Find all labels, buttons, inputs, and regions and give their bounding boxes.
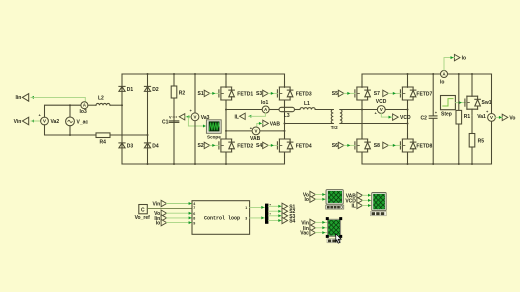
svg-text:9: 9 [193,221,195,225]
svg-text:C: C [141,207,145,213]
demux bar [265,204,271,224]
wire bridge1 right leg [284,74,286,164]
port S4 out [282,217,296,224]
port Vin scope2 [301,219,315,226]
resistor R2 [171,86,185,98]
wire Iin signal [31,97,85,101]
gate S3 [256,90,277,97]
wire bridge A output [226,109,262,111]
svg-text:IL: IL [351,204,355,210]
ammeter Io3 [80,102,88,115]
svg-text:S4: S4 [256,143,262,149]
voltmeter Va3 [190,74,210,164]
node VAB right [284,130,286,132]
node leg2R top [407,73,409,75]
svg-text:7: 7 [193,206,195,210]
svg-text:Vin: Vin [14,119,22,125]
transistor FETD7 [400,81,432,105]
svg-text:S8: S8 [374,143,380,149]
wire Vo to box [167,212,193,214]
transistor Sw1 [465,74,492,134]
probe Vin [14,117,34,125]
wire VAB signal [257,123,263,127]
port Vac scope2 [300,229,315,236]
wire Vin signal [31,120,41,122]
resistor R4 [96,133,148,146]
wire bridge left leg [121,74,123,164]
port Vin in [152,200,166,207]
node secondary bottom right [407,123,409,125]
wire bridge2 right leg [407,74,409,164]
svg-text:Iin: Iin [15,95,21,101]
svg-text:FETD8: FETD8 [416,143,432,149]
node R1 bottom [458,163,460,165]
scope output-side [326,190,344,210]
svg-text:D3: D3 [127,143,134,149]
svg-text:Tr2: Tr2 [331,125,338,130]
svg-text:FETD1: FETD1 [237,91,253,97]
svg-text:Va1: Va1 [477,114,486,120]
inductor L1 [295,101,334,110]
svg-text:R4: R4 [100,140,107,146]
svg-text:R5: R5 [478,139,485,145]
voltmeter VAB [226,125,285,142]
port VAB scope3 [346,192,363,199]
svg-text:VAB: VAB [250,136,261,142]
gate S7 [374,90,401,97]
svg-text:D2: D2 [152,87,159,93]
wire C to pin7 [147,207,192,209]
svg-text:S4: S4 [289,219,295,225]
port S3 out [282,213,296,220]
diode D1 [119,86,134,92]
wire scope branch [188,117,204,126]
node AC right [147,134,149,136]
node source bottom [69,134,71,136]
transistor FETD3 [277,81,311,105]
svg-text:C2: C2 [421,115,428,121]
svg-text:FETD7: FETD7 [416,91,432,97]
node R2 rail top [173,73,175,75]
svg-text:Step: Step [441,111,452,117]
wire Step signal [455,102,465,104]
svg-text:L2: L2 [98,96,104,102]
port Vo scope1 [303,191,316,198]
svg-text:IL: IL [235,114,239,120]
svg-text:Io: Io [462,56,466,62]
node C2 top [432,73,434,75]
svg-text:S2: S2 [198,143,204,149]
wire Vo scope1 [315,194,326,196]
step source Step [441,96,456,118]
diode D2 [144,86,159,92]
wire bottom rail 1 [122,163,285,165]
scope transformer-side [371,193,387,216]
port S1 out [282,203,296,210]
svg-text:8: 8 [193,217,195,221]
wire Vin scope2 [315,221,327,223]
wire demux out 4 [268,220,282,222]
node secondary top left [361,109,363,111]
svg-text:FETD2: FETD2 [237,143,253,149]
svg-text:Io: Io [304,197,308,203]
svg-text:6: 6 [193,212,195,216]
svg-text:VAB: VAB [270,121,281,127]
node A [225,109,227,111]
probe VCD [393,114,411,121]
capacitor C2 [421,74,438,164]
node bottom rail D4 [147,163,149,165]
svg-text:Vin: Vin [152,201,160,207]
resistor R1 [456,74,470,164]
gate S1 [198,90,219,97]
wire secondary top [340,109,408,111]
probe VAB [263,120,281,127]
svg-text:FETD3: FETD3 [296,91,312,97]
svg-text:S3: S3 [256,91,262,97]
inductor L2 [88,96,122,106]
gate S4 [256,142,277,149]
svg-text:Io1: Io1 [261,100,268,106]
transistor FETD1 [219,81,253,105]
voltmeter Va2 [39,113,60,126]
node R1 top [458,73,460,75]
scope input-side selected [326,217,342,243]
source V_ac [66,105,89,135]
gate S6 [332,142,355,149]
wire demux out 3 [268,215,282,217]
probe Io [454,54,466,61]
probe Vo [502,114,515,121]
port Vo in [154,210,167,217]
svg-text:1: 1 [245,206,247,210]
transistor FETD2 [219,133,253,157]
wire Vin to box [167,203,193,205]
svg-text:Vo: Vo [509,115,515,121]
svg-text:VCD: VCD [400,115,411,121]
svg-text:S6: S6 [332,143,338,149]
wire demux out 2 [268,210,282,212]
scope Scope [206,120,221,140]
voltmeter VCD [375,99,387,116]
svg-text:Control loop: Control loop [204,216,240,222]
svg-text:Scope: Scope [207,135,221,140]
wire IL scope3 [362,205,371,207]
node R2 rail bottom [173,163,175,165]
transistor FETD6 [355,133,371,157]
wire Vo signal [495,116,502,118]
gate S2 [198,142,219,149]
node source top [69,104,71,106]
svg-text:L1: L1 [304,101,310,107]
wire Io signal [444,58,454,71]
svg-text:S1: S1 [198,91,204,97]
svg-text:Va2: Va2 [51,119,60,125]
port Iin in [154,215,166,222]
wire VAB scope3 [362,194,371,196]
svg-text:L3: L3 [284,113,290,119]
svg-text:D4: D4 [152,143,159,149]
diode D3 [119,143,134,149]
wire ctrl out 1 [250,206,265,208]
wire demux out 1 [268,205,282,207]
svg-text:D1: D1 [127,87,134,93]
wire Io to box [167,222,193,224]
node secondary top right [407,109,409,111]
subcircuit Control loop [192,201,250,235]
probe IL [235,113,252,120]
diode D4 [144,143,159,149]
capacitor C1 [162,116,179,126]
wire bridge right leg [147,74,149,164]
wire VCD scope3 [362,199,371,201]
wire secondary bottom [340,123,408,125]
wire bottom rail 2 [362,163,492,165]
node B [284,123,286,125]
wire Vac scope2 [315,232,327,234]
wire IL signal [248,113,265,116]
port VCD scope3 [345,197,362,204]
node leg1 top [225,73,227,75]
node top rail D2 [147,73,149,75]
transistor FETD5 [355,81,371,105]
voltmeter Va1 [477,74,495,164]
wire bridge2 left leg [361,74,363,164]
node R5 bottom [471,163,473,165]
wire top rail 1 [122,73,285,75]
node Va3 rail top [194,73,196,75]
transistor FETD4 [277,133,311,157]
wire R2/C1 rail [173,74,175,164]
svg-text:C1: C1 [162,120,169,126]
wire Iin scope2 [315,227,327,229]
wire Vdc signal [185,116,191,118]
gate S5 [332,90,355,97]
svg-text:Io3: Io3 [80,109,87,115]
wire input bottom [45,125,97,135]
svg-text:Io: Io [440,79,444,85]
node leg1 bottom [225,163,227,165]
inductor L3 [269,107,294,119]
svg-text:S5: S5 [332,91,338,97]
constant C (Vo_ref) [135,205,151,221]
node leg2R bottom [407,163,409,165]
wire bridge1 left leg [225,74,227,164]
gate S8 [374,142,401,149]
probe Iin [15,94,34,102]
svg-text:VCD: VCD [376,99,387,105]
wire bridge B output [285,123,334,125]
node Sw1 top [471,73,473,75]
resistor R5 [469,134,484,165]
svg-text:Io: Io [156,221,160,227]
node VAB left [225,130,227,132]
svg-text:Sw1: Sw1 [482,100,492,106]
svg-text:Vac: Vac [300,231,309,237]
svg-text:Vo_ref: Vo_ref [135,215,151,221]
svg-text:R1: R1 [464,114,471,120]
wire Iin to box [167,217,193,219]
node C2 bottom [432,163,434,165]
node Va3 rail bottom [194,163,196,165]
transistor FETD8 [400,133,432,157]
port Io in [156,219,167,226]
svg-text:S7: S7 [374,91,380,97]
port S2 out [282,208,296,215]
wire ctrl out 3 [250,217,265,219]
ammeter Io [440,71,448,86]
svg-text:3: 3 [245,217,247,221]
svg-text:R2: R2 [179,90,186,96]
port Vdc (left-pointing) [179,114,185,120]
mouse cursor [336,234,341,243]
ammeter Io1 [261,100,269,113]
transformer Tr2 [331,110,342,130]
wire VCD signal [381,114,392,118]
port Iin scope2 [303,225,315,232]
node AC left [121,104,123,106]
svg-text:FETD4: FETD4 [296,143,312,149]
wire Io scope1 [315,198,326,200]
port Io scope1 [304,196,315,203]
wire top rail 2 [362,73,492,75]
wire input top [45,105,81,117]
port IL scope3 [351,202,362,209]
svg-text:V_ac: V_ac [77,120,89,126]
